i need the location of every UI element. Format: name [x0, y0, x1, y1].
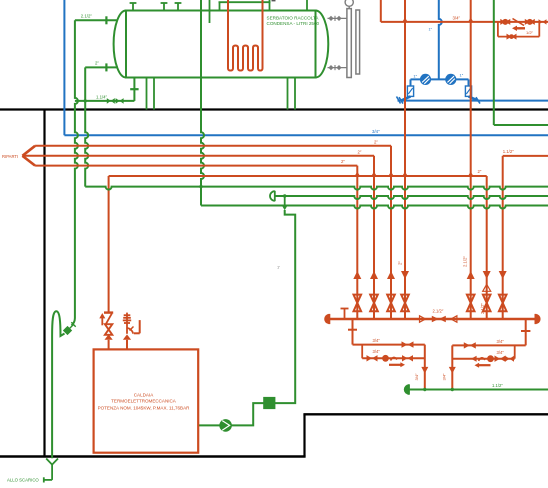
svg-text:3/4″: 3/4″	[373, 349, 381, 354]
svg-text:CALDAIA: CALDAIA	[134, 393, 154, 398]
svg-text:CONDENSA - LITRI 2500: CONDENSA - LITRI 2500	[267, 21, 320, 26]
svg-text:2″: 2″	[478, 169, 482, 174]
svg-text:SERBATOIO RACCOLTA: SERBATOIO RACCOLTA	[267, 16, 320, 21]
svg-text:RIPARTI: RIPARTI	[2, 154, 18, 159]
svg-text:2.1/2″: 2.1/2″	[81, 14, 93, 19]
svg-text:1′: 1′	[277, 265, 280, 270]
svg-text:1″: 1″	[413, 74, 417, 79]
svg-text:TERMOELETTROMECCANICA: TERMOELETTROMECCANICA	[111, 399, 177, 404]
svg-text:3/4″: 3/4″	[441, 373, 446, 381]
svg-text:2″: 2″	[341, 159, 345, 164]
svg-text:1.1/2″: 1.1/2″	[492, 383, 503, 388]
svg-text:3/4″: 3/4″	[497, 339, 505, 344]
svg-text:ALLO SCARICO: ALLO SCARICO	[7, 478, 39, 483]
svg-text:2.1/2″: 2.1/2″	[463, 256, 468, 267]
svg-text:1″: 1″	[460, 73, 464, 78]
svg-text:2″: 2″	[398, 261, 403, 265]
svg-text:1.1/2″: 1.1/2″	[503, 149, 515, 154]
svg-text:3/4″: 3/4″	[453, 16, 461, 21]
svg-text:3/4″: 3/4″	[414, 373, 419, 381]
svg-text:1″: 1″	[429, 28, 433, 32]
svg-text:3/4″: 3/4″	[373, 338, 381, 343]
svg-text:2″: 2″	[374, 139, 378, 144]
svg-text:2.1/2″: 2.1/2″	[480, 303, 485, 314]
svg-text:2″: 2″	[358, 149, 362, 154]
svg-text:3/4″: 3/4″	[372, 129, 380, 134]
svg-text:1/2″: 1/2″	[526, 30, 534, 35]
svg-text:POTENZA NOM. 1045KW, P.MAX. 11: POTENZA NOM. 1045KW, P.MAX. 11,76BAR	[98, 405, 191, 410]
svg-text:2.1/2″: 2.1/2″	[433, 309, 444, 314]
svg-text:1.1/4″: 1.1/4″	[96, 95, 108, 100]
svg-text:2″: 2″	[95, 61, 99, 66]
svg-text:3/4″: 3/4″	[497, 350, 505, 355]
